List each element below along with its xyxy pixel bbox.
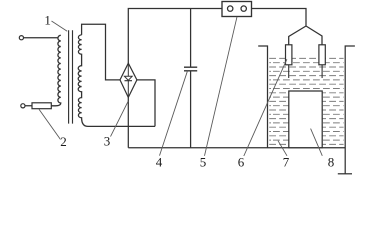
svg-text:2: 2 <box>60 134 67 149</box>
svg-text:7: 7 <box>283 155 290 170</box>
svg-text:1: 1 <box>44 13 51 28</box>
svg-text:6: 6 <box>238 155 245 170</box>
svg-text:3: 3 <box>104 134 111 149</box>
svg-text:5: 5 <box>200 155 207 170</box>
svg-text:8: 8 <box>328 155 335 170</box>
svg-text:4: 4 <box>156 155 163 170</box>
